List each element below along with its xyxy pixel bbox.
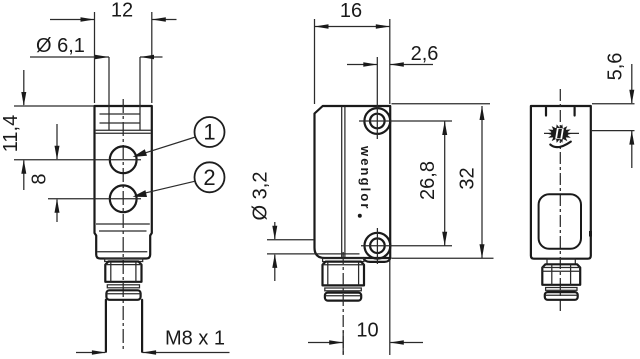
dimension 5,6 ext bottom (pot axis) <box>592 130 635 132</box>
svg-text:11,4: 11,4 <box>0 115 22 152</box>
mounting hole bottom inner <box>370 238 385 253</box>
dimension 26,8 arrow top <box>442 121 447 135</box>
dimension 32 arrow bottom <box>480 244 485 258</box>
case groove line 1 <box>341 107 343 258</box>
nut chamfer line <box>105 264 141 266</box>
M8 thread cylinder left side <box>105 300 107 352</box>
nut chamfer line (side) <box>323 264 365 266</box>
dimension 26,8 arrow bottom <box>442 232 447 246</box>
dimension 3,2 arrow bottom <box>272 254 277 268</box>
connector hex nut (front view) <box>105 262 141 282</box>
connector flange (rear view) <box>547 259 575 264</box>
svg-text:M8 x 1: M8 x 1 <box>165 328 225 350</box>
svg-text:32: 32 <box>456 167 478 189</box>
dimension 32 line <box>481 106 483 258</box>
dimension 10 line <box>308 342 423 344</box>
connector flange (side view) <box>323 258 364 261</box>
nut flat right (side) <box>358 262 360 286</box>
bottom seam line y224 <box>96 223 150 225</box>
dimension M8x1 line <box>76 352 230 354</box>
mounting hole top outer <box>364 108 390 134</box>
dimension M8x1 arrow left <box>92 350 106 355</box>
dimension 10 arrow right <box>390 340 404 345</box>
connector ring band <box>107 285 139 288</box>
balloon 1 leader arrow <box>133 149 147 157</box>
mounting hole bottom crosshair horizontal / 26,8 ext bottom <box>361 245 452 247</box>
dimension 10 ext right <box>389 260 391 356</box>
right edge mark <box>589 231 592 237</box>
mounting hole bottom tab <box>364 258 391 262</box>
dimension 6,1 arrow left <box>95 55 109 60</box>
knurled ring inner line (side) <box>325 295 361 297</box>
top notch left <box>545 108 547 116</box>
dimension 10 ext left (connector axis) <box>342 331 344 355</box>
connector ring band (side) <box>325 288 362 291</box>
connector flange (front view) <box>105 259 143 262</box>
lens barrel line right <box>139 57 141 130</box>
nut flat line right <box>135 262 137 282</box>
mounting hole bottom outer <box>365 233 391 259</box>
wenglor logo registered dot <box>358 214 362 218</box>
connector knurled ring (side) <box>325 293 361 301</box>
nut chamfer line (rear) <box>542 267 580 269</box>
bottom seam line y231 <box>99 230 147 232</box>
case groove line 2 <box>344 107 346 258</box>
dimension 11,4 line <box>23 70 25 190</box>
dimension 12 arrow left <box>81 17 95 22</box>
housing seam line y133 <box>96 132 151 134</box>
dimension 32 ext top <box>392 103 491 105</box>
dimension 12 extension right <box>151 12 153 103</box>
dimension 8 arrow bottom <box>55 199 60 213</box>
dimension 16 ext left <box>314 19 316 104</box>
lens circle 1 <box>110 146 137 173</box>
dimension 8 arrow top <box>55 146 60 160</box>
sensor body outline (front view) <box>95 106 152 259</box>
sensor body outline (side view) <box>315 106 391 258</box>
svg-text:2,6: 2,6 <box>411 43 439 65</box>
nut flat left (rear) <box>551 265 553 285</box>
connector centerline (side) <box>342 252 344 354</box>
nut mid line (rear) <box>542 270 580 272</box>
dimension 11,4 arrow bottom <box>21 160 26 174</box>
dimension 3,2 arrow top <box>272 226 277 240</box>
potentiometer star <box>547 124 572 143</box>
label plate rounded rect <box>539 194 581 249</box>
dimension 11,4 arrow top <box>21 92 26 106</box>
dimension 3,2 line <box>274 222 276 281</box>
optics window line y114 <box>100 113 140 115</box>
connector ring band (rear) <box>546 288 577 291</box>
mounting hole top inner <box>370 114 385 129</box>
dimension 12 line <box>50 19 177 21</box>
dimension 16 line <box>315 26 390 28</box>
svg-text:12: 12 <box>111 0 133 22</box>
dimension 16 arrow left <box>315 24 329 29</box>
svg-text:16: 16 <box>340 0 362 22</box>
nut flat line left <box>110 262 112 282</box>
bottom seam line y252 <box>97 251 147 253</box>
balloon 2 leader <box>138 181 195 195</box>
svg-text:1: 1 <box>203 120 215 145</box>
connector knurled ring (rear) <box>545 292 578 300</box>
svg-text:5,6: 5,6 <box>604 53 626 81</box>
svg-text:Ø 6,1: Ø 6,1 <box>36 35 85 57</box>
connector hex nut (rear view) <box>542 264 580 285</box>
rear centerline <box>559 89 561 312</box>
mounting hole top crosshair horizontal / 26,8 ext top <box>359 120 452 122</box>
dimension 2,6 line <box>347 64 433 66</box>
top notch right <box>573 108 575 116</box>
balloon 1 leader <box>138 137 195 155</box>
dimension 5,6 ext top <box>592 103 635 105</box>
nut flat right (rear) <box>570 265 572 285</box>
M8 thread cylinder right side <box>141 300 143 352</box>
housing seam line y130 <box>96 129 151 131</box>
mounting hole top crosshair vertical / 2,6 ext <box>376 57 378 139</box>
optics window line y123 <box>100 122 140 124</box>
dimension 16 ext right <box>389 19 391 104</box>
svg-text:2: 2 <box>203 165 215 190</box>
extension line body top left <box>14 105 94 107</box>
knurled ring inner line (rear) <box>545 294 578 296</box>
dimension 5,6 line <box>631 64 633 168</box>
centerline through lens 2 <box>48 198 141 200</box>
centerline through lens 1 <box>14 159 141 161</box>
balloon 1 circle <box>195 117 225 147</box>
dimension 32 arrow top <box>480 106 485 120</box>
knurled ring inner line <box>106 293 140 295</box>
svg-text:wenglor: wenglor <box>358 145 373 211</box>
dimension 5,6 arrow top <box>629 90 634 104</box>
potentiometer turn arc <box>550 142 571 148</box>
dimension 6,1 line <box>30 56 163 58</box>
dimension 16 arrow right <box>376 24 390 29</box>
dimension 5,6 arrow bottom <box>629 131 634 145</box>
dimension M8x1 arrow right <box>142 350 156 355</box>
dimension 32 ext bottom <box>392 257 494 259</box>
svg-text:10: 10 <box>356 320 378 342</box>
balloon 2 circle <box>195 162 225 192</box>
dimension 12 arrow right <box>152 17 166 22</box>
sensor body outline (rear view) <box>531 106 591 259</box>
connector hex nut (side view) <box>323 262 365 286</box>
dimension 8 line <box>56 124 58 222</box>
nut flat left (side) <box>327 262 329 286</box>
dimension 2,6 arrow left <box>363 62 377 67</box>
mounting hole bottom crosshair vertical <box>376 228 378 264</box>
connector knurled ring <box>106 290 140 300</box>
bottom seam line (side) <box>267 253 360 255</box>
dimension 10 arrow left <box>329 340 343 345</box>
vertical centerline of front view <box>122 99 124 351</box>
dimension 2,6 arrow right <box>390 62 404 67</box>
svg-text:26,8: 26,8 <box>417 161 439 200</box>
dimension 26,8 line <box>444 121 446 246</box>
dimension 12 extension left <box>94 12 96 103</box>
dimension 6,1 arrow right <box>140 55 154 60</box>
potentiometer crosshair <box>544 132 579 134</box>
lens circle 2 <box>110 185 137 212</box>
lens bore line upper <box>267 239 314 241</box>
balloon 2 leader arrow <box>133 190 147 197</box>
svg-text:Ø 3,2: Ø 3,2 <box>249 172 271 221</box>
svg-text:8: 8 <box>28 173 50 184</box>
lens barrel line left <box>108 57 110 130</box>
